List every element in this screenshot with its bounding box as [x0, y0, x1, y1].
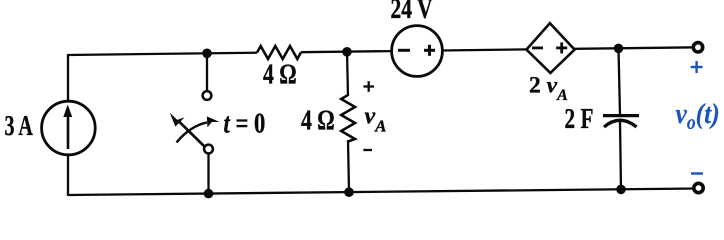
- svg-text:24 V: 24 V: [391, 0, 433, 25]
- wire mid branch bottom lead: [348, 140, 349, 193]
- wire capacitor top lead: [619, 48, 621, 115]
- node top capacitor junction: [614, 44, 624, 54]
- svg-text:3 A: 3 A: [5, 111, 33, 142]
- switch S1: [170, 91, 220, 153]
- voltage source V1 24V: [392, 26, 443, 77]
- label plus of vA: [363, 81, 374, 92]
- node top-mid junction: [342, 47, 352, 57]
- resistor R2 4 ohm vertical: [341, 95, 355, 142]
- current source I1 3A: [42, 101, 96, 155]
- svg-text:2 F: 2 F: [565, 104, 594, 134]
- wire switch branch top: [206, 53, 208, 95]
- svg-text:vA: vA: [365, 104, 387, 136]
- node bottom right junction: [616, 185, 626, 195]
- svg-text:4 Ω: 4 Ω: [301, 103, 335, 136]
- wire left branch: [67, 54, 69, 196]
- terminal top right: [693, 43, 702, 52]
- node bottom left junction: [204, 189, 214, 199]
- capacitor C1 2F: [603, 116, 639, 127]
- label minus terminal blue: [691, 172, 703, 174]
- label minus of vA: [363, 149, 372, 151]
- wire switch branch bottom: [207, 149, 209, 194]
- svg-text:4 Ω: 4 Ω: [263, 57, 297, 90]
- node top switch junction: [202, 49, 212, 59]
- label plus terminal blue: [691, 61, 703, 73]
- resistor R1 4 ohm horizontal: [257, 46, 301, 59]
- wire mid branch top lead: [347, 52, 348, 96]
- wire bottom rail: [68, 189, 699, 196]
- svg-text:vo(t): vo(t): [676, 98, 720, 135]
- dependent source E1 2vA diamond: [526, 23, 574, 73]
- wire capacitor bottom lead: [620, 122, 621, 190]
- svg-text:2 vA: 2 vA: [529, 73, 568, 105]
- node bottom mid junction: [344, 187, 354, 197]
- svg-text:t = 0: t = 0: [224, 107, 266, 139]
- wire top rail: [68, 47, 698, 55]
- terminal bottom right: [694, 183, 703, 192]
